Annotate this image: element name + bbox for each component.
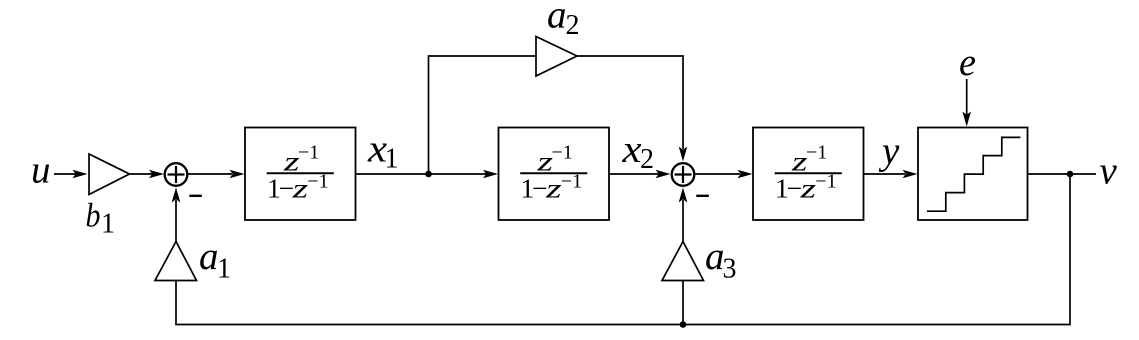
block H3 (integrator z^-1/(1-z^-1)) xyxy=(753,128,864,221)
wire u to gain b1 with arrow xyxy=(54,170,88,179)
wire H1 to junction x1 xyxy=(356,173,429,175)
svg-text:−1: −1 xyxy=(561,171,582,193)
wire x1 to block H2 with arrow xyxy=(429,170,499,179)
minus sign at S1 xyxy=(189,195,202,197)
value label H3 fraction xyxy=(775,142,842,204)
value label H2 fraction xyxy=(520,142,587,204)
label a3 xyxy=(705,235,737,285)
block H2 (integrator z^-1/(1-z^-1)) xyxy=(499,128,610,221)
svg-text:2: 2 xyxy=(566,10,580,41)
svg-text:1: 1 xyxy=(101,209,115,240)
value label H1 fraction xyxy=(267,142,334,204)
wire a2 to summer S2 top with down arrow xyxy=(577,56,687,162)
wire quantizer to output v xyxy=(1028,173,1097,175)
wire H3 to quantizer with arrow xyxy=(864,170,918,179)
wire S1 to block H1 with arrow xyxy=(188,170,245,179)
gain a2 (triangle) xyxy=(536,37,577,77)
label a1 xyxy=(199,235,231,285)
svg-text:v: v xyxy=(1100,150,1118,193)
svg-text:1: 1 xyxy=(217,254,231,285)
svg-text:1: 1 xyxy=(385,144,399,175)
wire junction to gain a3 xyxy=(682,281,684,325)
svg-text:b: b xyxy=(86,198,101,235)
svg-text:−1: −1 xyxy=(552,142,573,164)
svg-text:−1: −1 xyxy=(806,142,827,164)
svg-text:−1: −1 xyxy=(298,142,319,164)
label a2 xyxy=(547,0,580,41)
block H1 (integrator z^-1/(1-z^-1)) xyxy=(245,128,356,221)
summer S1 xyxy=(165,163,188,186)
summer S2 xyxy=(672,163,695,186)
label b1 xyxy=(86,198,116,240)
quantizer Q (box) xyxy=(918,128,1028,221)
svg-text:a: a xyxy=(199,235,219,278)
quantizer staircase symbol xyxy=(927,137,1020,211)
wire a1 to summer S1 with up arrow xyxy=(172,188,181,242)
gain a3 (triangle) xyxy=(662,242,704,281)
svg-text:3: 3 xyxy=(723,254,737,285)
gain b1 (triangle) xyxy=(89,154,130,195)
gain a1 (triangle) xyxy=(155,242,197,281)
wire H2 to summer S2 with arrow xyxy=(609,170,671,179)
wire e into quantizer with down arrow xyxy=(962,79,971,127)
junction dot v xyxy=(1067,171,1074,178)
wire feedback: v down, across bottom, up to a1 xyxy=(176,174,1070,325)
svg-text:u: u xyxy=(31,149,51,192)
minus sign at S2 xyxy=(696,195,709,197)
svg-text:z: z xyxy=(291,172,308,203)
svg-text:a: a xyxy=(547,0,567,37)
node x1 label xyxy=(367,128,399,175)
svg-text:2: 2 xyxy=(640,144,654,175)
svg-text:−1: −1 xyxy=(307,171,328,193)
svg-text:e: e xyxy=(959,41,976,84)
svg-text:−1: −1 xyxy=(815,171,836,193)
node x2 label xyxy=(621,128,654,175)
svg-text:y: y xyxy=(878,130,900,173)
svg-text:z: z xyxy=(545,172,562,203)
junction dot feedback at a3 xyxy=(680,321,687,328)
wire x1 up and across (a2 feedforward, left segment) xyxy=(429,56,537,174)
wire S2 to block H3 with arrow xyxy=(695,170,753,179)
wire b1 to summer S1 with arrow xyxy=(130,170,165,179)
wire a3 to summer S2 with up arrow xyxy=(679,188,688,242)
junction dot x1 xyxy=(425,171,432,178)
svg-text:z: z xyxy=(799,172,816,203)
